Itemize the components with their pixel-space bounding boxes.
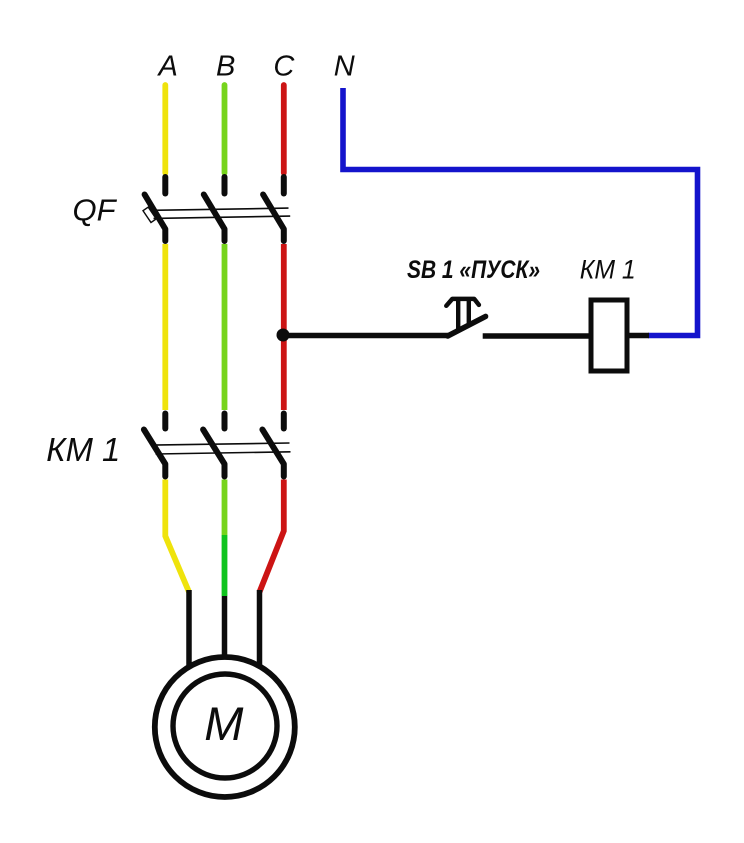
wire phase B to motor (black) <box>222 596 228 658</box>
wire phase B top (light green) <box>222 85 228 173</box>
contactor KM1 linkage bar <box>153 443 291 454</box>
wire pushbutton to coil KM1 <box>483 333 590 339</box>
breaker QF pole 1 <box>145 177 166 241</box>
junction node on phase C <box>277 329 290 342</box>
breaker QF trip square <box>143 207 156 222</box>
wire phase A middle (yellow) <box>162 244 168 410</box>
svg-text:M: M <box>204 697 244 750</box>
breaker QF pole 3 <box>263 177 284 241</box>
contactor coil KM1 <box>591 300 627 371</box>
wire phase B lower upper part (light green) <box>222 480 228 536</box>
wire phase B lower bottom part (green) <box>222 535 228 596</box>
wire phase C to motor (black) <box>257 590 263 667</box>
svg-text:B: B <box>216 51 235 83</box>
contactor KM1 pole 2 <box>203 414 224 477</box>
pushbutton SB1 (normally open) <box>446 299 485 336</box>
wire phase C top (red) <box>281 85 287 173</box>
wire phase A lower (yellow, with bend) <box>165 480 189 593</box>
wire phase B middle (light green) <box>222 244 228 410</box>
svg-text:C: C <box>273 51 295 83</box>
wire phase C lower (red, with bend) <box>260 480 284 593</box>
svg-text:КМ 1: КМ 1 <box>46 431 120 468</box>
wire coil KM1 to neutral <box>630 333 650 339</box>
contactor KM1 pole 3 <box>262 414 283 477</box>
svg-text:A: A <box>157 51 178 83</box>
motor M inner circle <box>173 674 277 778</box>
wire junction to pushbutton SB1 <box>283 333 449 339</box>
svg-text:КМ 1: КМ 1 <box>580 255 636 285</box>
breaker QF pole 2 <box>204 177 225 241</box>
contactor KM1 pole 1 <box>144 414 165 477</box>
breaker QF linkage bar <box>153 208 291 218</box>
wire phase C middle (red) <box>281 244 287 410</box>
svg-text:SB 1 «ПУСК»: SB 1 «ПУСК» <box>407 256 540 284</box>
wire phase A to motor (black) <box>186 590 192 667</box>
wire neutral N (blue) <box>343 88 698 336</box>
svg-text:QF: QF <box>72 193 117 228</box>
svg-text:N: N <box>334 51 355 83</box>
wire phase A top (yellow) <box>162 85 168 173</box>
motor M outer circle <box>155 657 295 797</box>
